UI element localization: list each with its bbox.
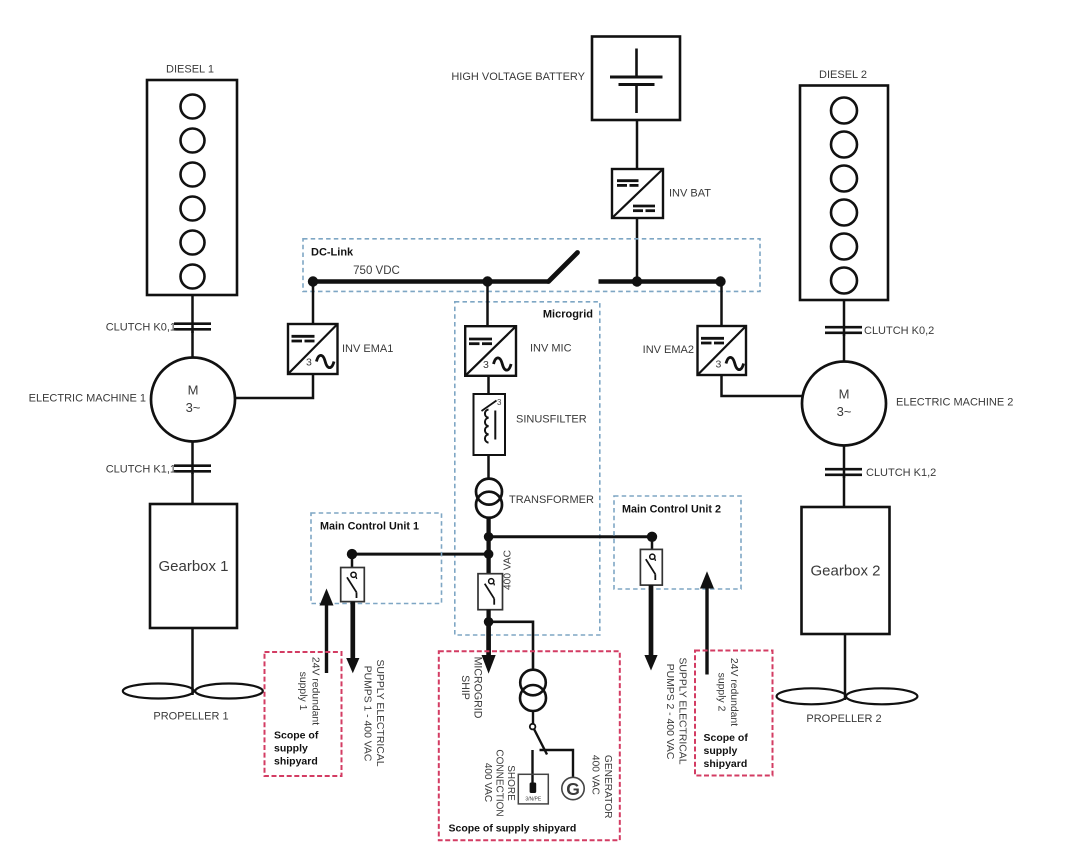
- breaker microgrid feeder: [478, 574, 503, 610]
- svg-text:Main Control Unit 1: Main Control Unit 1: [320, 521, 419, 533]
- wire bus to INV EMA1: [312, 282, 315, 325]
- arrow microgrid ship: [482, 622, 496, 674]
- svg-text:750 VDC: 750 VDC: [353, 265, 400, 277]
- scope of supply shipyard box 1: [265, 652, 342, 776]
- svg-text:supply: supply: [274, 743, 308, 755]
- DC-Link region: [303, 239, 760, 292]
- svg-text:3: 3: [306, 357, 312, 369]
- svg-text:Scope of: Scope of: [704, 732, 749, 744]
- svg-text:3: 3: [716, 359, 722, 371]
- transformer: [476, 479, 594, 518]
- diesel engine DIESEL 2: [800, 69, 888, 300]
- node bus / INV MIC tap: [482, 276, 492, 286]
- inverter INV EMA2: [643, 326, 746, 375]
- svg-text:supply: supply: [704, 745, 738, 757]
- 400 VAC riser wire: [486, 518, 490, 574]
- svg-text:shipyard: shipyard: [704, 758, 748, 770]
- svg-text:M: M: [188, 383, 199, 398]
- wire to shore connection plug: [531, 750, 533, 783]
- electric machine M2: [802, 362, 1013, 446]
- node bus / INV EMA1 tap: [308, 276, 318, 286]
- svg-text:3: 3: [483, 359, 489, 371]
- svg-text:supply 2: supply 2: [716, 673, 727, 712]
- wire diesel 2 to clutch K0,2: [843, 300, 846, 336]
- label SHORE CONNECTION 400 VAC: [482, 749, 516, 816]
- svg-text:SHORE: SHORE: [505, 765, 516, 801]
- wire battery to INV BAT: [636, 120, 639, 169]
- DC bus 750 VDC left segment: [313, 279, 549, 284]
- wire clutch K1,1 to gearbox 1: [191, 473, 194, 504]
- svg-text:PUMPS 2 - 400 VAC: PUMPS 2 - 400 VAC: [664, 664, 675, 760]
- shaft gearbox 2 to propeller 2: [844, 634, 847, 700]
- svg-text:M: M: [839, 387, 850, 402]
- svg-text:PUMPS 1 - 400 VAC: PUMPS 1 - 400 VAC: [362, 666, 373, 762]
- svg-text:400 VAC: 400 VAC: [482, 763, 493, 802]
- arrow 24V redundant supply 2: [700, 571, 714, 674]
- wire microgrid node to shore transformer: [489, 622, 533, 670]
- shaft gearbox 1 to propeller 1: [191, 628, 194, 695]
- wire MCU2 tap to breaker: [651, 537, 654, 550]
- svg-text:CLUTCH K0,2: CLUTCH K0,2: [864, 325, 934, 337]
- inverter INV EMA1: [288, 324, 393, 374]
- propeller 2: [777, 688, 918, 725]
- wire bus to INV EMA2: [720, 282, 723, 327]
- svg-text:PROPELLER 1: PROPELLER 1: [153, 711, 228, 723]
- wire shore transformer to switch pivot: [532, 711, 534, 724]
- svg-text:3~: 3~: [186, 400, 201, 415]
- propeller 1: [123, 684, 263, 723]
- svg-text:INV EMA1: INV EMA1: [342, 343, 393, 355]
- shore transformer: [520, 670, 546, 711]
- svg-text:GENERATOR: GENERATOR: [602, 755, 613, 819]
- clutch K1,2: [825, 467, 936, 479]
- shore connection plug box: [518, 774, 548, 804]
- svg-text:Scope of: Scope of: [274, 730, 319, 742]
- svg-text:SUPPLY ELECTRICAL: SUPPLY ELECTRICAL: [374, 659, 385, 766]
- wire diesel 1 to clutch K0,1: [191, 295, 194, 333]
- wire clutch K0,1 to electric machine 1: [191, 331, 194, 359]
- diesel engine DIESEL 1: [147, 64, 237, 296]
- electric machine M1: [29, 358, 235, 442]
- node 400VAC to MCU1: [484, 549, 494, 559]
- wire INV MIC to sinusfilter: [487, 376, 490, 394]
- label 24V redundant supply 1: [297, 657, 321, 725]
- node MCU1 tap: [347, 549, 357, 559]
- label MICROGRID SHIP: [459, 657, 484, 719]
- DC bus disconnect switch blade: [549, 253, 578, 282]
- node 400VAC to MCU2: [484, 532, 494, 542]
- label SUPPLY ELECTRICAL PUMPS 2: [664, 657, 688, 764]
- svg-text:400 VAC: 400 VAC: [589, 755, 600, 795]
- scope of supply shipyard box center: [439, 651, 620, 840]
- generator G: [562, 777, 584, 799]
- svg-text:24V redundant: 24V redundant: [309, 657, 320, 725]
- wire INV BAT to DC bus: [636, 218, 639, 282]
- svg-text:HIGH VOLTAGE BATTERY: HIGH VOLTAGE BATTERY: [451, 71, 585, 83]
- wire 400VAC to MCU1: [352, 553, 489, 556]
- DC bus 750 VDC right segment: [599, 279, 723, 284]
- arrow supply electrical pumps 1: [346, 602, 359, 674]
- breaker MCU1: [341, 568, 365, 602]
- label GENERATOR 400 VAC: [589, 755, 613, 819]
- svg-text:supply 1: supply 1: [297, 672, 308, 711]
- svg-text:TRANSFORMER: TRANSFORMER: [509, 494, 594, 506]
- node microgrid ship junction: [484, 617, 494, 627]
- gearbox 2: [802, 507, 890, 634]
- svg-text:DC-Link: DC-Link: [311, 247, 354, 259]
- svg-text:400 VAC: 400 VAC: [503, 550, 514, 590]
- wire electric machine 2 to clutch K1,2: [843, 446, 846, 479]
- inverter INV MIC: [465, 326, 571, 376]
- svg-text:Scope of supply shipyard: Scope of supply shipyard: [449, 823, 577, 835]
- scope of supply shipyard box 2: [695, 651, 773, 776]
- breaker MCU2: [640, 549, 662, 585]
- wire INV EMA1 to electric machine 1: [235, 374, 313, 398]
- wire 400VAC to MCU2: [489, 535, 652, 538]
- arrow supply electrical pumps 2: [644, 585, 657, 670]
- svg-text:SUPPLY ELECTRICAL: SUPPLY ELECTRICAL: [677, 657, 688, 764]
- sinusfilter: [474, 394, 587, 455]
- svg-text:Microgrid: Microgrid: [543, 309, 593, 321]
- svg-text:DIESEL 1: DIESEL 1: [166, 64, 214, 76]
- clutch K1,1: [106, 464, 211, 476]
- svg-text:INV MIC: INV MIC: [530, 343, 572, 355]
- svg-text:CLUTCH K1,1: CLUTCH K1,1: [106, 464, 176, 476]
- svg-text:Main Control Unit 2: Main Control Unit 2: [622, 504, 721, 516]
- battery HIGH VOLTAGE BATTERY: [451, 37, 680, 121]
- clutch K0,2: [825, 325, 934, 337]
- wire breaker to microgrid node: [486, 610, 490, 622]
- converter INV BAT: [612, 169, 711, 218]
- svg-text:24V redundant: 24V redundant: [728, 658, 739, 726]
- wire switch to generator: [540, 750, 574, 778]
- wire bus to INV MIC: [486, 282, 489, 328]
- svg-text:shipyard: shipyard: [274, 756, 318, 768]
- node MCU2 tap: [647, 532, 657, 542]
- wire clutch K0,2 to electric machine 2: [843, 334, 846, 363]
- svg-text:MICROGRID: MICROGRID: [472, 657, 484, 719]
- wire INV EMA2 to electric machine 2: [722, 375, 803, 396]
- svg-text:CLUTCH K1,2: CLUTCH K1,2: [866, 467, 936, 479]
- shore selector switch: [530, 724, 547, 755]
- Main Control Unit 2 region: [614, 496, 741, 589]
- svg-text:CLUTCH K0,1: CLUTCH K0,1: [106, 322, 176, 334]
- wire electric machine 1 to clutch K1,1: [191, 442, 194, 475]
- svg-text:SINUSFILTER: SINUSFILTER: [516, 414, 587, 426]
- svg-text:Gearbox 2: Gearbox 2: [810, 563, 880, 580]
- label SUPPLY ELECTRICAL PUMPS 1: [362, 659, 386, 766]
- node bus / INV EMA2 tap: [715, 276, 725, 286]
- svg-text:INV BAT: INV BAT: [669, 188, 711, 200]
- svg-text:INV EMA2: INV EMA2: [643, 344, 694, 356]
- label 24V redundant supply 2: [716, 658, 740, 726]
- Microgrid region: [455, 302, 600, 635]
- svg-text:G: G: [566, 779, 580, 799]
- clutch K0,1: [106, 322, 211, 334]
- node bus / INV BAT tap: [632, 276, 642, 286]
- svg-text:Gearbox 1: Gearbox 1: [158, 558, 228, 575]
- wire clutch K1,2 to gearbox 2: [843, 476, 846, 507]
- svg-text:SHIP: SHIP: [459, 675, 471, 700]
- gearbox 1: [150, 504, 237, 628]
- svg-text:CONNECTION: CONNECTION: [493, 749, 504, 816]
- svg-text:ELECTRIC MACHINE 2: ELECTRIC MACHINE 2: [896, 397, 1013, 409]
- wire MCU1 tap to breaker: [351, 554, 354, 567]
- svg-text:DIESEL 2: DIESEL 2: [819, 69, 867, 81]
- svg-text:3: 3: [497, 398, 502, 407]
- wire sinusfilter to transformer: [487, 455, 490, 480]
- svg-text:ELECTRIC MACHINE 1: ELECTRIC MACHINE 1: [29, 393, 146, 405]
- svg-text:3/N/PE: 3/N/PE: [525, 797, 542, 803]
- svg-text:3~: 3~: [837, 404, 852, 419]
- arrow 24V redundant supply 1: [320, 589, 334, 674]
- Main Control Unit 1 region: [311, 513, 442, 604]
- svg-text:PROPELLER 2: PROPELLER 2: [806, 713, 881, 725]
